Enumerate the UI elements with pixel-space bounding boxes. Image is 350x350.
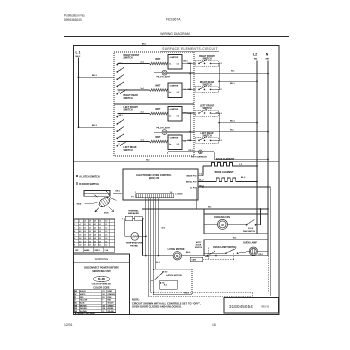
svg-text:B DOOR SWITCH: B DOOR SWITCH: [79, 183, 99, 186]
svg-text:COLOR OF WIRE NO.: COLOR OF WIRE NO.: [92, 284, 112, 286]
svg-text:FAN SWITCH: FAN SWITCH: [243, 230, 256, 233]
svg-text:3-2: 3-2: [177, 144, 180, 146]
svg-text:-1: -1: [79, 221, 81, 223]
svg-text:16: 16: [170, 192, 172, 194]
terminal dot 1: [116, 116, 118, 118]
svg-text:4a: 4a: [169, 143, 171, 146]
wire W-1 to N: [167, 73, 268, 75]
svg-text:FES367A: FES367A: [166, 18, 181, 22]
svg-text:COLOR CODE: COLOR CODE: [93, 286, 110, 289]
limiter 2 box: [168, 83, 182, 98]
svg-text:5-5: 5-5: [99, 238, 101, 240]
switch arm: [117, 127, 124, 132]
oven lamp: [249, 247, 257, 255]
wire bake to L2: [234, 165, 257, 167]
wire ribbon 4: [152, 198, 154, 269]
svg-text:BK-3: BK-3: [92, 125, 98, 127]
svg-text:5-2: 5-2: [99, 228, 101, 230]
switch arm: [120, 141, 127, 146]
element bake meander: [210, 162, 234, 166]
wire cluster4 to vertical: [216, 139, 220, 141]
wire latch motor out: [182, 255, 205, 257]
svg-text:1-3: 1-3: [105, 231, 107, 233]
cluster contact box: [196, 137, 219, 143]
wire to unit 2: [117, 141, 149, 143]
switch arm: [117, 67, 124, 72]
svg-text:M: M: [221, 224, 223, 227]
svg-text:BROWN: BROWN: [80, 305, 87, 307]
legend symbol B: [76, 183, 78, 185]
svg-text:TEMPERATURE: TEMPERATURE: [126, 242, 143, 245]
svg-text:6: 6: [74, 238, 75, 240]
svg-text:BROIL P/O: BROIL P/O: [186, 181, 197, 183]
door switch arm: [208, 251, 216, 255]
terminal dot 2: [116, 123, 118, 125]
svg-text:SURFACE ELEMENTS-CIRCUIT: SURFACE ELEMENTS-CIRCUIT: [162, 47, 218, 51]
junction L1 P/O: [202, 186, 204, 188]
switch arm: [117, 134, 124, 139]
svg-text:BK-5: BK-5: [116, 191, 120, 193]
assembly boundary dashed 2: [148, 295, 252, 297]
wire hot surface right: [202, 151, 214, 153]
wire broil stub: [198, 181, 207, 183]
latch cam mechanism: [97, 195, 111, 208]
pilot light wire left: [154, 72, 162, 74]
thermal breaker body right: [135, 216, 143, 221]
svg-text:ORANGE: ORANGE: [107, 293, 115, 296]
svg-text:3-0: 3-0: [89, 221, 91, 223]
wire N bus vertical: [267, 61, 269, 256]
assembly boundary right vertical: [267, 256, 269, 293]
svg-text:2-7: 2-7: [84, 245, 86, 247]
svg-text:BK-2: BK-2: [92, 75, 98, 77]
pilot light lamp: [162, 130, 167, 135]
wire breaker right down: [142, 219, 144, 256]
group box right surface switches: [114, 52, 194, 104]
svg-text:7: 7: [74, 241, 75, 243]
svg-text:RD-2: RD-2: [230, 120, 235, 122]
wire to latch motor: [143, 255, 174, 257]
svg-text:BL: BL: [75, 303, 77, 305]
wire number oval: [94, 276, 110, 281]
svg-text:LATCH MOTOR: LATCH MOTOR: [168, 248, 185, 251]
svg-text:YELLOW: YELLOW: [80, 300, 88, 302]
svg-text:CAM: CAM: [192, 259, 197, 262]
svg-text:• LIMITER: • LIMITER: [169, 57, 179, 59]
wire ribbon 1: [145, 198, 147, 256]
svg-text:A LATCH SWITCH: A LATCH SWITCH: [79, 175, 100, 178]
wire L1 P/O horizontal: [198, 186, 270, 188]
wire fan up to bus: [260, 209, 262, 225]
svg-text:BROIL ELEMENT: BROIL ELEMENT: [215, 172, 234, 174]
svg-text:1-1: 1-1: [105, 224, 107, 226]
group box left surface switches: [114, 104, 194, 156]
latch switch inner block: [160, 280, 178, 289]
wire limiter3 to cluster: [182, 112, 194, 114]
title underline: [160, 51, 219, 53]
terminal dot 4: [116, 86, 118, 88]
switch function table: [74, 219, 115, 246]
wire to unit 2: [117, 89, 149, 91]
svg-text:BK-6: BK-6: [186, 252, 190, 254]
svg-text:WH: WH: [266, 59, 270, 61]
svg-text:THERMAL: THERMAL: [128, 210, 139, 213]
latch arrow 3: [110, 198, 117, 201]
svg-text:RD: RD: [254, 59, 258, 61]
svg-text:1-7: 1-7: [105, 245, 107, 247]
svg-text:B-1: B-1: [164, 285, 167, 287]
element broil meander: [215, 178, 237, 182]
switch arm: [117, 82, 124, 87]
oven lamp switch arm: [226, 249, 236, 254]
wire lamp left: [204, 252, 226, 254]
warning box: [74, 254, 130, 315]
svg-text:2-6: 2-6: [84, 241, 86, 243]
svg-text:M: M: [176, 255, 178, 258]
stub from group box: [194, 88, 196, 90]
terminal dot 5: [116, 145, 118, 147]
svg-text:BAKE P/O: BAKE P/O: [187, 175, 197, 178]
svg-text:SWITCH: SWITCH: [124, 58, 133, 60]
svg-text:8: 8: [74, 245, 75, 247]
svg-text:Y-2: Y-2: [239, 164, 242, 166]
svg-text:WHITE: WHITE: [80, 294, 86, 296]
svg-text:COOLING FAN: COOLING FAN: [214, 216, 230, 219]
wire RD-1 to L2: [219, 80, 257, 82]
svg-text:5-7: 5-7: [99, 245, 101, 247]
svg-text:BL-2: BL-2: [199, 179, 203, 181]
switch arm: [117, 75, 124, 80]
svg-text:SWITCH: SWITCH: [124, 110, 133, 112]
svg-text:5-6: 5-6: [99, 241, 101, 243]
wire limiter4 to cluster: [182, 139, 194, 141]
cluster contact box: [196, 60, 219, 66]
terminal dot 5: [116, 93, 118, 95]
wire cluster3/4 vertical: [218, 113, 220, 140]
svg-text:12/01: 12/01: [64, 323, 73, 327]
svg-text:BAKE: BAKE: [84, 249, 90, 252]
junction: [218, 122, 220, 124]
surface section divider: [74, 160, 280, 162]
assembly boundary dashed 1: [151, 292, 253, 294]
svg-text:• LIMITER: • LIMITER: [169, 137, 179, 139]
element unit 2 zigzag: [150, 89, 168, 92]
svg-text:GRAY: GRAY: [107, 290, 113, 293]
terminal dot 3: [116, 78, 118, 80]
thermal breaker body left: [125, 216, 133, 221]
svg-text:1-2: 1-2: [105, 228, 107, 230]
svg-text:+1: +1: [79, 224, 81, 226]
svg-text:OVEN LAMP: OVEN LAMP: [243, 242, 257, 245]
junction on L2: [256, 181, 258, 183]
svg-text:2-6: 2-6: [79, 241, 81, 243]
interlock dashed link: [203, 259, 234, 261]
svg-text:OVEN LAMP SWITCH: OVEN LAMP SWITCH: [213, 246, 237, 249]
svg-text:N-1 B: N-1 B: [248, 228, 254, 230]
svg-text:2a: 2a: [169, 116, 171, 118]
switch arm: [199, 109, 207, 113]
pointer line: [85, 202, 98, 205]
svg-text:BAKE ELEMENT: BAKE ELEMENT: [216, 158, 235, 161]
svg-text:1-5: 1-5: [105, 238, 107, 240]
svg-text:BK-1: BK-1: [119, 115, 123, 117]
stub from group box: [194, 139, 196, 141]
svg-text:NOTE:: NOTE:: [132, 299, 140, 302]
svg-text:RIGHT REAR: RIGHT REAR: [200, 81, 215, 84]
svg-text:3-6: 3-6: [89, 241, 91, 243]
svg-text:2a-1: 2a-1: [141, 112, 144, 114]
svg-text:3-2: 3-2: [177, 92, 180, 94]
wire vertical link A: [189, 63, 191, 89]
svg-text:LATCH MOTOR: LATCH MOTOR: [166, 274, 182, 277]
svg-text:• LIMITER: • LIMITER: [169, 109, 179, 111]
wire to unit 1: [117, 113, 149, 115]
limiter 1 box: [168, 55, 182, 70]
svg-text:4a: 4a: [169, 91, 171, 94]
interlock dashed to door switch: [207, 248, 209, 260]
junction ribbon: [145, 236, 147, 238]
EOC connector strip P1: [136, 194, 174, 198]
door switch pivot: [207, 255, 209, 257]
junction: [218, 80, 220, 82]
junction L1/BK-3: [78, 126, 80, 128]
svg-text:UNIT: UNIT: [155, 137, 161, 139]
part number box: [224, 298, 279, 314]
fan switch arm: [247, 220, 255, 225]
wire ribbon 6: [157, 198, 159, 256]
svg-text:UNIT: UNIT: [155, 109, 161, 111]
svg-text:PROBE: PROBE: [130, 245, 138, 247]
wire lower bus W-1: [142, 208, 268, 210]
latch motor M: [173, 252, 181, 260]
svg-text:318045054: 318045054: [229, 304, 253, 309]
element unit 1 zigzag: [150, 112, 168, 115]
svg-text:YL: YL: [102, 311, 104, 313]
switch arm: [199, 137, 207, 141]
wire cluster1/2 vertical: [218, 63, 220, 89]
svg-text:N-1: N-1: [219, 89, 222, 91]
wire probe left: [125, 235, 131, 237]
svg-text:UNIT: UNIT: [155, 86, 161, 88]
junction on L2: [256, 122, 258, 124]
svg-text:ELECTRONIC OVEN CONTROL: ELECTRONIC OVEN CONTROL: [136, 175, 172, 177]
wire into latch box: [151, 279, 154, 281]
wire cluster3 to vertical: [216, 112, 220, 114]
svg-text:5-1: 5-1: [99, 224, 101, 226]
svg-text:WH/BK: WH/BK: [107, 308, 114, 310]
legend symbol A: [76, 175, 78, 177]
switch arm: [117, 119, 124, 124]
svg-text:L1 P/O: L1 P/O: [190, 187, 197, 189]
svg-text:3-3: 3-3: [89, 231, 91, 233]
svg-text:2a: 2a: [169, 64, 171, 66]
svg-text:1a-1: 1a-1: [141, 140, 144, 142]
svg-text:16: 16: [212, 323, 216, 327]
electronic oven control EOC box: [123, 169, 198, 200]
table footer strip: [74, 247, 115, 252]
latch link: [94, 195, 98, 198]
svg-text:W-3: W-3: [162, 228, 166, 230]
svg-text:3-1: 3-1: [89, 224, 91, 226]
svg-text:1-6: 1-6: [105, 241, 107, 243]
element unit 1 zigzag: [150, 62, 168, 65]
junction on N: [267, 131, 269, 133]
latch arrow 1: [109, 207, 114, 212]
svg-text:2a-1: 2a-1: [141, 62, 144, 64]
svg-text:REV B: REV B: [262, 306, 270, 309]
schematic outer border: [74, 46, 280, 315]
svg-text:BK-1: BK-1: [119, 63, 123, 65]
svg-text:PILOT LIGHT: PILOT LIGHT: [157, 128, 171, 130]
svg-text:SW-B: SW-B: [104, 213, 109, 215]
svg-text:4: 4: [74, 230, 75, 233]
svg-text:BK-7: BK-7: [142, 43, 146, 45]
svg-text:BL-RD: BL-RD: [98, 279, 105, 281]
svg-text:✱ CABINET GND WIRE: ✱ CABINET GND WIRE: [75, 312, 96, 315]
temperature probe: [131, 233, 139, 241]
svg-text:Publication No.: Publication No.: [64, 14, 86, 18]
svg-text:1-0: 1-0: [105, 221, 107, 223]
svg-text:WARNING: WARNING: [95, 257, 108, 261]
svg-text:N-1: N-1: [219, 140, 222, 142]
svg-text:TIME 1: TIME 1: [94, 250, 100, 252]
junction on N: [267, 208, 269, 210]
junction on N: [267, 158, 269, 160]
svg-text:OVEN DOOR CLOSED AND UNLOCKED.: OVEN DOOR CLOSED AND UNLOCKED.: [132, 306, 182, 309]
svg-text:L 1: L 1: [76, 51, 81, 55]
wire BK-2 to right-switch box: [79, 76, 115, 78]
cluster contact box: [196, 86, 219, 92]
terminal NO: [162, 271, 164, 273]
wire ribbon 5: [155, 198, 157, 269]
latch switch arm: [154, 272, 163, 280]
cooling fan circuit box: [204, 214, 268, 234]
switch arm: [199, 86, 207, 90]
svg-text:YEL/BK: YEL/BK: [107, 311, 114, 313]
svg-text:HOT SURFACE: HOT SURFACE: [191, 155, 207, 158]
junction on L2: [256, 80, 258, 82]
svg-text:5-0: 5-0: [99, 221, 101, 223]
svg-text:VIOLET: VIOLET: [107, 303, 114, 305]
junction: [189, 131, 191, 133]
svg-text:LEFT REAR: LEFT REAR: [124, 146, 137, 149]
switch arm: [199, 60, 207, 64]
wire from group B to hot surface: [167, 152, 169, 154]
wire short vertical: [195, 187, 197, 209]
wire right box edge down: [269, 187, 271, 296]
junction on L2: [256, 165, 258, 167]
svg-text:RD-2: RD-2: [189, 150, 193, 152]
pilot light wire right: [167, 131, 194, 133]
interlock cam box: [190, 257, 203, 261]
svg-text:5995363040: 5995363040: [64, 18, 82, 22]
pilot light lamp: [162, 70, 167, 75]
latch switch box: [154, 269, 193, 294]
wire breaker to probe loop: [124, 219, 126, 237]
svg-text:2-5: 2-5: [84, 238, 86, 240]
svg-text:WIRING DIAGRAM: WIRING DIAGRAM: [160, 32, 190, 36]
svg-text:2: 2: [74, 224, 75, 226]
svg-text:RD-5: RD-5: [259, 254, 263, 256]
wire to N: [214, 158, 268, 160]
terminal dot 1: [116, 64, 118, 66]
svg-text:1-2: 1-2: [177, 116, 180, 118]
cluster contact box: [196, 110, 219, 116]
latch assembly bracket: [84, 191, 110, 197]
wire bake stub: [198, 175, 203, 177]
svg-text:1-6: 1-6: [79, 234, 81, 236]
svg-text:3-7: 3-7: [89, 245, 91, 247]
svg-text:• LIMITER: • LIMITER: [169, 85, 179, 87]
element unit 2 zigzag: [150, 140, 168, 143]
wire L1 bus vertical: [78, 58, 80, 128]
svg-text:PILOT LIGHT: PILOT LIGHT: [157, 77, 171, 79]
svg-text:SW-A: SW-A: [77, 202, 83, 205]
svg-text:2-1: 2-1: [84, 224, 86, 226]
wire L2 bus vertical: [256, 61, 258, 234]
switch arm: [120, 89, 127, 94]
assembly boundary joint: [252, 293, 254, 297]
svg-text:1a-1: 1a-1: [141, 88, 144, 90]
svg-text:2-2: 2-2: [84, 228, 86, 230]
svg-text:BLACK: BLACK: [80, 290, 87, 293]
svg-text:UNIT: UNIT: [155, 59, 161, 61]
svg-text:BL-2: BL-2: [241, 177, 245, 179]
wire broil to L2: [237, 181, 257, 183]
pilot light wire left: [154, 131, 162, 133]
svg-text:BREAKER: BREAKER: [128, 212, 139, 215]
limiter 2 box: [168, 135, 182, 150]
svg-text:W-3: W-3: [233, 238, 236, 240]
wire fan left: [204, 224, 218, 226]
oven lamp circuit box: [204, 240, 268, 256]
svg-text:3-5: 3-5: [89, 238, 91, 240]
wire BK-3 to left-switch box: [79, 126, 115, 128]
wire fan right: [228, 224, 247, 226]
stub from group box: [194, 62, 196, 64]
wire jog down: [213, 152, 215, 159]
terminal dot 4: [116, 138, 118, 140]
wire bus to fan box: [203, 209, 205, 214]
wire probe right: [139, 235, 146, 237]
svg-text:W-2: W-2: [146, 159, 150, 161]
wire ribbon 2: [147, 198, 149, 297]
svg-text:(EOC) US: (EOC) US: [149, 178, 160, 180]
svg-text:2-3: 2-3: [79, 228, 81, 230]
svg-text:BK-3: BK-3: [184, 60, 188, 62]
svg-text:DISCONNECT POWER BEFORE: DISCONNECT POWER BEFORE: [84, 267, 119, 269]
wire RD-2 to L2: [219, 122, 257, 124]
svg-text:GREEN: GREEN: [107, 305, 114, 307]
svg-text:V-1: V-1: [184, 141, 187, 143]
svg-text:5: 5: [74, 234, 75, 236]
wire cluster2 to vertical: [216, 88, 220, 90]
limiter 1 box: [168, 107, 182, 122]
color code table: [74, 290, 116, 313]
latch arrow 2: [95, 208, 99, 213]
terminal dot 2: [116, 71, 118, 73]
svg-text:5-3: 5-3: [99, 231, 101, 233]
header rule: [64, 36, 289, 38]
pilot light wire right: [167, 72, 194, 74]
junction on N: [267, 73, 269, 75]
wire limiter1 to cluster: [182, 62, 194, 64]
wire ribbon 3: [150, 198, 152, 293]
svg-text:SWITCH: SWITCH: [124, 150, 133, 152]
svg-text:SWITCH: SWITCH: [195, 247, 203, 249]
junction L1/BK-2: [78, 76, 80, 78]
svg-text:RIGHT REAR: RIGHT REAR: [124, 94, 139, 97]
